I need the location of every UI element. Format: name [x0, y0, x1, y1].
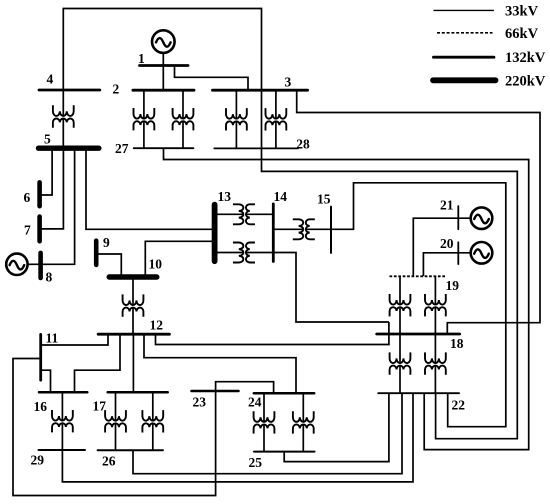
bus 2: [133, 89, 194, 92]
label bus 19: [446, 278, 460, 293]
wire bus11-bus12: [41, 334, 108, 345]
bus 20: [457, 242, 459, 264]
label bus 18: [450, 336, 464, 351]
label bus 7: [24, 223, 31, 238]
svg-text:5: 5: [44, 132, 51, 147]
bus 8: [38, 253, 43, 278]
bus 22: [378, 392, 459, 394]
svg-text:11: 11: [46, 331, 59, 346]
transformer T13-14 (upper): [215, 204, 274, 224]
label bus 21: [440, 198, 454, 213]
bus 11: [39, 334, 42, 380]
svg-text:7: 7: [24, 223, 31, 238]
label bus 5: [44, 132, 51, 147]
svg-text:26: 26: [102, 453, 116, 468]
svg-text:3: 3: [285, 75, 292, 90]
transformer T16-29: [52, 392, 73, 450]
transformer T3-28 (right): [266, 90, 287, 148]
bus 16: [39, 391, 87, 394]
bus 15: [330, 207, 332, 253]
svg-text:29: 29: [31, 453, 45, 468]
transformer T18-22 (left): [390, 334, 411, 393]
svg-text:15: 15: [317, 192, 331, 207]
label bus 13: [218, 189, 232, 204]
svg-text:10: 10: [149, 257, 163, 272]
wire bus4 to bus3 (top route): [63, 9, 261, 91]
svg-text:24: 24: [248, 395, 262, 410]
label bus 25: [249, 455, 263, 470]
transformer T24-25 (left): [254, 393, 275, 451]
legend label 132kV: [505, 50, 546, 66]
svg-text:28: 28: [296, 136, 310, 151]
generator G21: [471, 207, 493, 229]
bus 27: [134, 147, 194, 149]
wire bus12-bus24: [144, 334, 296, 393]
bus 18: [377, 333, 460, 336]
label bus 17: [93, 398, 107, 413]
transformer T19-18 (right): [425, 276, 446, 334]
wire bus27-bus22 (long right route): [164, 148, 529, 449]
wire bus29-bus22 (bottom route): [62, 393, 413, 482]
legend 220kV line: [433, 77, 496, 83]
wire bus3/28-bus22 (long right route): [262, 90, 518, 439]
transformer T14-15: [273, 219, 331, 239]
svg-text:17: 17: [93, 398, 107, 413]
bus 7: [37, 217, 42, 242]
bus 21: [457, 206, 459, 229]
label bus 12: [150, 318, 164, 333]
label bus 11: [46, 331, 59, 346]
wire generator G20 to bus19: [423, 253, 470, 276]
label bus 23: [193, 395, 207, 410]
svg-text:9: 9: [103, 235, 110, 250]
transformer T2-27 (left): [134, 90, 155, 148]
generator G8: [6, 254, 27, 275]
wire bus5-bus7: [41, 148, 63, 229]
transformer T3-28 (left): [226, 90, 247, 148]
svg-text:4: 4: [47, 72, 54, 87]
wire bus11-bus23 (left/bottom route): [13, 359, 216, 496]
label bus 27: [115, 141, 129, 156]
label bus 26: [102, 453, 116, 468]
bus 23: [192, 390, 239, 393]
generator G1: [152, 30, 175, 53]
svg-text:12: 12: [150, 318, 164, 333]
bus 26: [98, 449, 163, 451]
bus 9: [94, 241, 99, 265]
label bus 29: [31, 453, 45, 468]
wire bus12-bus17: [132, 334, 134, 392]
wire bus25-bus22: [284, 393, 389, 461]
svg-text:13: 13: [218, 189, 232, 204]
svg-text:14: 14: [274, 189, 288, 204]
generator G20: [471, 242, 493, 264]
bus 3: [213, 89, 308, 92]
transformer T19-18 (left): [390, 276, 411, 334]
svg-text:23: 23: [193, 395, 207, 410]
bus 19 (66kV dashed): [390, 275, 446, 277]
bus 6: [37, 182, 42, 206]
bus 17: [108, 391, 168, 394]
bus 5 (220kV): [39, 145, 99, 150]
wire bus5-bus6: [40, 148, 52, 195]
label bus 20: [440, 236, 454, 251]
svg-text:8: 8: [46, 270, 53, 285]
svg-text:18: 18: [450, 336, 464, 351]
legend 33kV line: [434, 9, 494, 11]
bus 12: [98, 333, 169, 336]
bus 10 (220kV): [109, 274, 157, 279]
label bus 9: [103, 235, 110, 250]
transformer T2-27 (right): [173, 90, 194, 148]
svg-text:33kV: 33kV: [505, 4, 539, 20]
svg-text:132kV: 132kV: [505, 50, 546, 66]
wire bus1-bus3: [175, 66, 249, 91]
transformer T18-22 (right): [425, 334, 446, 393]
label bus 1: [138, 51, 145, 66]
svg-text:21: 21: [440, 198, 454, 213]
wire bus14-bus18: [273, 253, 389, 323]
svg-text:66kV: 66kV: [505, 26, 539, 42]
wire bus23-bus24 bridge: [216, 382, 274, 394]
wire bus1-bus2: [162, 66, 164, 91]
wire bus3-bus18 (right outer route): [297, 90, 540, 334]
bus 14: [272, 204, 275, 262]
label bus 22: [452, 398, 466, 413]
label bus 14: [274, 189, 288, 204]
label bus 4: [47, 72, 54, 87]
svg-text:20: 20: [440, 236, 454, 251]
bus 29: [39, 449, 86, 451]
wire generator G1 stem to bus 1: [162, 53, 164, 66]
wire bus11-bus16: [41, 370, 51, 392]
wire bus5-bus8 via generator G8 tap: [28, 148, 75, 264]
wire bus12-bus16: [75, 334, 121, 392]
bus 13 (220kV): [212, 205, 218, 262]
label bus 16: [34, 399, 48, 414]
svg-text:220kV: 220kV: [505, 73, 546, 89]
bus 1: [140, 64, 189, 67]
label bus 2: [113, 82, 120, 97]
wire bus10-bus13: [145, 241, 214, 277]
transformer T24-25 (right): [293, 393, 314, 451]
label bus 8: [46, 270, 53, 285]
wire bus26-bus22 (bottom route): [133, 393, 402, 474]
svg-text:2: 2: [113, 82, 120, 97]
label bus 10: [149, 257, 163, 272]
label bus 24: [248, 395, 262, 410]
svg-text:19: 19: [446, 278, 460, 293]
svg-text:25: 25: [249, 455, 263, 470]
wire bus15-bus22 (right route): [331, 183, 506, 427]
transformer T17-26 (right): [142, 392, 163, 450]
bus 4: [39, 89, 100, 92]
wire bus5-bus13: [86, 148, 215, 229]
label bus 6: [24, 190, 31, 205]
bus 24: [254, 392, 314, 395]
legend label 220kV: [505, 73, 546, 89]
svg-text:1: 1: [138, 51, 145, 66]
wire bus9-bus10: [96, 254, 121, 277]
transformer T4-5: [53, 90, 74, 148]
transformer T13-14 (lower): [215, 243, 274, 263]
legend 132kV line: [434, 56, 494, 59]
bus 25: [254, 451, 315, 453]
bus 28: [214, 147, 298, 149]
legend label 66kV: [505, 26, 539, 42]
transformer T10-12: [123, 277, 144, 334]
wire bus12-bus18: [156, 322, 389, 345]
transformer T17-26 (left): [105, 392, 126, 450]
legend label 33kV: [505, 4, 539, 20]
svg-text:27: 27: [115, 141, 129, 156]
legend 66kV line: [437, 32, 493, 34]
wire generator G21 to bus19: [413, 218, 470, 276]
svg-text:22: 22: [452, 398, 466, 413]
label bus 3: [285, 75, 292, 90]
svg-text:6: 6: [24, 190, 31, 205]
label bus 28: [296, 136, 310, 151]
label bus 15: [317, 192, 331, 207]
svg-text:16: 16: [34, 399, 48, 414]
